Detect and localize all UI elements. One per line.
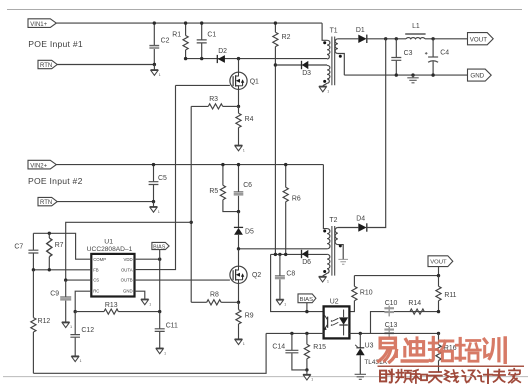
svg-text:C11: C11 <box>166 322 178 329</box>
junction dot C8 on bias rail <box>278 253 281 256</box>
junction dot C3 bottom <box>395 73 398 76</box>
resistor R14 <box>408 300 424 314</box>
wire feedback bottom rail <box>33 333 266 373</box>
wire Q2 source <box>238 283 240 302</box>
svg-text:R8: R8 <box>210 292 219 299</box>
svg-text:VIN2+: VIN2+ <box>30 163 47 169</box>
svg-text:POE Input #1: POE Input #1 <box>28 39 83 49</box>
capacitor C4 <box>425 39 449 75</box>
junction dot C2/RTN1 <box>153 63 156 66</box>
ground (R15/C14) <box>303 370 313 382</box>
svg-text:COMP: COMP <box>93 257 106 262</box>
wire FB line <box>33 269 91 271</box>
junction dot R2 on bias rail <box>274 253 277 256</box>
diode D5 <box>234 212 254 249</box>
wire Q1 drain line <box>186 58 328 60</box>
svg-text:C7: C7 <box>14 243 23 250</box>
diode D6 <box>302 250 312 266</box>
junction dot C4 bottom <box>431 73 434 76</box>
diode D4 <box>356 216 367 232</box>
svg-text:FB: FB <box>93 267 99 272</box>
port flag RTN (input 1) <box>38 60 57 69</box>
ground (C8) <box>276 299 286 306</box>
port flag BIAS (near U2) <box>298 294 316 312</box>
capacitor C9 <box>50 280 71 322</box>
junction dot C6 top <box>237 163 240 166</box>
svg-text:U1: U1 <box>104 239 113 246</box>
wire RTN2 <box>57 201 153 203</box>
svg-text:C5: C5 <box>158 175 167 182</box>
svg-text:D4: D4 <box>356 216 365 223</box>
wire Q2 drain line <box>239 248 328 250</box>
svg-text:Q1: Q1 <box>250 79 259 86</box>
transformer T1 <box>322 23 344 86</box>
port flag BIAS (near U1) <box>152 242 169 259</box>
wire RTN1 <box>57 64 154 66</box>
port flag VIN2+ <box>28 160 56 169</box>
ground (U1 GND pin) <box>141 299 151 306</box>
junction dot U3 stem <box>359 332 362 335</box>
wire T2 secondary to D4 <box>338 227 358 229</box>
svg-text:GND: GND <box>470 73 484 80</box>
resistor R10 <box>349 276 372 312</box>
resistor R12 <box>31 270 51 374</box>
port flag VOUT (feedback) <box>428 256 453 276</box>
wire CS to U1 <box>66 222 192 280</box>
ground (T1 bias winding) <box>319 86 329 93</box>
wire output GND rail <box>344 74 467 76</box>
opto-coupler U2 <box>324 299 350 339</box>
junction dot R7 top <box>48 232 51 235</box>
svg-text:C12: C12 <box>81 327 94 334</box>
svg-text:RC: RC <box>93 289 99 294</box>
junction dot D4 riser top <box>384 37 387 40</box>
svg-text:RTN: RTN <box>40 200 52 206</box>
junction dot R5 top <box>221 163 224 166</box>
svg-text:C8: C8 <box>286 270 295 277</box>
svg-text:OUTA: OUTA <box>121 267 133 272</box>
diode D2 <box>217 48 227 63</box>
svg-text:C10: C10 <box>385 300 398 307</box>
svg-text:D1: D1 <box>356 27 365 34</box>
svg-text:R4: R4 <box>245 116 254 123</box>
capacitor C10 <box>384 300 397 317</box>
svg-text:VOUT: VOUT <box>470 36 487 43</box>
junction dot Q2 drain node <box>237 247 240 250</box>
ground (R4) <box>235 145 245 152</box>
ground (RTN2/C5) <box>150 202 160 214</box>
resistor R9 <box>236 302 254 338</box>
op-amp U1 UCC2808AD-1 <box>87 239 135 297</box>
svg-text:CS: CS <box>93 278 99 283</box>
junction dot R6 top <box>284 163 287 166</box>
junction dot C1 bottom <box>200 57 203 60</box>
capacitor C8 <box>275 254 295 299</box>
junction dot BIAS stem <box>305 310 308 313</box>
junction dot C3 top <box>395 37 398 40</box>
wire R10/R11 top rail <box>354 275 438 277</box>
resistor R13 <box>75 302 160 314</box>
junction dot C7/FB <box>32 268 35 271</box>
wire VDD pin <box>135 258 160 260</box>
ground (R9) <box>235 339 245 346</box>
junction dot RC/R13/C12 <box>74 310 77 313</box>
resistor R1 <box>172 23 188 59</box>
svg-text:D2: D2 <box>218 48 227 55</box>
junction dot C4 top <box>431 37 434 40</box>
junction dot C14/R15 bottom <box>305 368 308 371</box>
wire CS pin <box>66 279 92 281</box>
svg-text:Q2: Q2 <box>252 272 261 279</box>
junction dot C5 top <box>152 163 155 166</box>
svg-text:D5: D5 <box>245 229 254 236</box>
capacitor C11 <box>155 312 178 348</box>
shunt regulator U3 TL431A <box>355 333 387 374</box>
wire T1 secondary to D1 <box>338 38 358 40</box>
junction dot VDD/BIAS <box>158 258 161 261</box>
resistor R16 <box>436 333 457 372</box>
wire bias rail <box>271 253 328 255</box>
resistor R4 <box>236 106 254 145</box>
capacitor C5 <box>149 165 167 202</box>
svg-text:UCC2808AD–1: UCC2808AD–1 <box>87 246 133 253</box>
transformer T2 <box>323 217 344 276</box>
ground (U3 earth) <box>355 374 366 379</box>
svg-text:C1: C1 <box>207 32 216 39</box>
diode D1 <box>356 27 367 43</box>
junction dot C2 top <box>153 21 156 24</box>
wire VIN2 rail to T2 <box>323 165 327 229</box>
capacitor C2 <box>149 23 169 64</box>
junction dot GND stub <box>411 73 414 76</box>
svg-text:RTN: RTN <box>40 63 52 69</box>
wire Q1 source <box>238 89 240 106</box>
resistor R3 <box>191 96 238 109</box>
junction dot R5/C6 bottom <box>237 210 240 213</box>
watermark slogan 射频和天线设计专家 <box>380 369 520 383</box>
svg-text:C13: C13 <box>385 322 398 329</box>
svg-text:D3: D3 <box>302 70 311 77</box>
junction dot R16 top node <box>437 332 440 335</box>
svg-text:D6: D6 <box>302 259 311 266</box>
wire R14/C10 compensation line <box>371 312 439 334</box>
svg-text:R13: R13 <box>105 302 118 309</box>
svg-text:BIAS: BIAS <box>300 297 313 303</box>
ground (output rail earth) <box>407 75 418 83</box>
svg-text:U2: U2 <box>330 299 339 306</box>
svg-text:L1: L1 <box>412 23 420 30</box>
svg-text:C14: C14 <box>272 344 285 351</box>
svg-text:R11: R11 <box>444 292 456 299</box>
capacitor C1 <box>197 23 217 59</box>
wire bias rail to opto collector <box>271 254 324 311</box>
transistor Q2 <box>230 249 261 284</box>
wire R2 to bias rail <box>274 65 276 254</box>
junction dot R1 bottom <box>184 57 187 60</box>
junction dot R7 bottom <box>48 268 51 271</box>
ground (T2 bias winding) <box>319 276 329 283</box>
wire VDD to R13/C11 <box>159 259 161 311</box>
ground (C9) <box>62 322 72 329</box>
wire RC pin <box>75 291 91 311</box>
junction dot R2 top <box>274 21 277 24</box>
svg-text:R15: R15 <box>313 344 326 351</box>
svg-text:C9: C9 <box>50 290 59 297</box>
wire GND pin <box>135 291 145 299</box>
resistor R5 <box>209 165 238 212</box>
resistor R2 <box>273 23 291 65</box>
diode D3 <box>302 61 312 77</box>
junction dot VOUT stem <box>437 274 440 277</box>
wire D4 output riser <box>367 39 386 228</box>
svg-text:POE Input #2: POE Input #2 <box>28 176 83 186</box>
port flag GND <box>468 69 492 81</box>
junction dot Q1 drain <box>237 57 240 60</box>
svg-text:R9: R9 <box>245 312 254 319</box>
svg-text:C3: C3 <box>404 50 413 57</box>
capacitor C12 <box>70 312 94 356</box>
svg-text:R1: R1 <box>172 31 181 38</box>
junction dot Q2 source node <box>237 301 240 304</box>
ground (T2 secondary earth) <box>338 259 348 264</box>
svg-text:C6: C6 <box>243 182 252 189</box>
svg-text:R6: R6 <box>292 196 301 203</box>
wire VIN1+ rail <box>56 22 322 24</box>
resistor R15 <box>304 333 326 370</box>
svg-text:OUTB: OUTB <box>121 278 133 283</box>
wire D1 to L1 <box>367 38 406 40</box>
wire OUTA pin to Q1 gate riser <box>135 85 176 269</box>
svg-text:R14: R14 <box>408 300 421 307</box>
junction dot CS pin <box>64 278 67 281</box>
svg-text:R2: R2 <box>282 34 291 41</box>
svg-text:C2: C2 <box>161 38 170 45</box>
junction dot R11/R14 node <box>437 310 440 313</box>
junction dot R6 on bias rail <box>284 253 287 256</box>
wire U2 emitter rail <box>266 332 438 334</box>
resistor R8 <box>191 292 238 305</box>
watermark rule line <box>378 365 525 367</box>
wire VIN2+ rail <box>56 164 323 166</box>
wire OUTB pin to Q2 gate <box>135 279 230 281</box>
svg-text:C4: C4 <box>440 49 449 56</box>
svg-text:U3: U3 <box>365 343 374 350</box>
junction dot R15 top <box>305 332 308 335</box>
svg-text:R10: R10 <box>360 290 373 297</box>
svg-text:VOUT: VOUT <box>430 260 447 266</box>
svg-text:VDD: VDD <box>124 257 133 262</box>
watermark logo 易迪拓培训 <box>379 338 506 363</box>
capacitor C7 <box>14 233 38 269</box>
resistor R11 <box>436 276 457 312</box>
svg-text:VIN1+: VIN1+ <box>30 22 47 28</box>
port flag RTN (input 2) <box>38 197 57 206</box>
junction dot C5/RTN2 <box>152 200 155 203</box>
inductor L1 <box>405 23 425 39</box>
port flag VIN1+ <box>28 19 56 28</box>
transistor Q1 <box>230 59 259 90</box>
capacitor C6 <box>234 165 252 212</box>
junction dot Q1 source node <box>237 105 240 108</box>
resistor R7 <box>47 233 64 269</box>
capacitor C3 <box>391 39 412 75</box>
svg-text:R12: R12 <box>38 318 51 325</box>
resistor R6 <box>283 165 301 255</box>
svg-text:T2: T2 <box>329 217 337 224</box>
junction dot CS riser <box>190 221 193 224</box>
junction dot C14 top <box>290 332 293 335</box>
ground (RTN1/C2) <box>151 65 161 77</box>
wire D3 line <box>275 64 327 66</box>
junction dot C1 top <box>200 21 203 24</box>
ground (C12) <box>71 356 81 363</box>
svg-text:R7: R7 <box>55 242 64 249</box>
capacitor C13 <box>384 322 397 338</box>
svg-text:R3: R3 <box>209 96 218 103</box>
wire Q1 gate <box>176 84 230 86</box>
wire CS sense riser <box>190 106 192 302</box>
svg-text:BIAS: BIAS <box>153 244 166 250</box>
ground (C11) <box>156 348 166 355</box>
wire COMP pin to C7/R7 top <box>33 233 91 259</box>
svg-text:T1: T1 <box>330 28 338 35</box>
port flag VOUT (top) <box>468 33 494 45</box>
junction dot D3 line / R2 <box>274 63 277 66</box>
svg-text:R5: R5 <box>209 188 218 195</box>
junction dot R1 top <box>184 21 187 24</box>
svg-text:GND: GND <box>123 289 133 294</box>
capacitor C14 <box>272 333 307 370</box>
junction dot R13 right node <box>158 310 161 313</box>
wire L1 to VOUT <box>425 38 468 40</box>
